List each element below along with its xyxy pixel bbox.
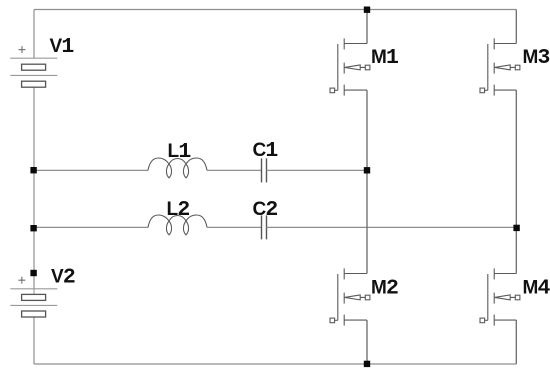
bottom rail wire	[34, 363, 516, 365]
capacitor C2	[262, 215, 267, 239]
row2 wire L2 to C2	[207, 226, 262, 228]
transistor M4	[480, 268, 520, 325]
row1 wire L1 to C1	[207, 169, 262, 171]
transistor M3	[480, 38, 520, 95]
svg-text:L2: L2	[167, 198, 190, 222]
svg-text:M3: M3	[523, 46, 550, 70]
svg-text:C1: C1	[253, 139, 278, 163]
junction node row2 left	[30, 225, 36, 231]
junction node V2 top	[30, 270, 36, 276]
junction node row1 left	[30, 167, 36, 173]
svg-text:M1: M1	[371, 46, 398, 70]
vertical branch M1-M2 lower	[366, 320, 368, 364]
svg-text:M2: M2	[371, 276, 398, 300]
inductor L1	[148, 158, 207, 178]
vertical branch M3-M4 upper	[515, 10, 517, 44]
transistor M1	[330, 38, 370, 95]
junction node top rail	[364, 7, 370, 13]
svg-text:V2: V2	[51, 266, 75, 290]
row2 wire C2 to node	[267, 226, 517, 228]
junction node bottom rail	[364, 361, 370, 367]
junction node row2 right	[513, 225, 519, 231]
svg-text:L1: L1	[168, 140, 191, 164]
left rail wire upper	[33, 10, 35, 59]
inductor L2	[148, 215, 207, 235]
junction node row1 right	[364, 167, 370, 173]
capacitor C1	[262, 158, 267, 182]
transistor M2	[330, 268, 370, 325]
svg-text:M4: M4	[523, 276, 550, 300]
svg-text:C2: C2	[253, 198, 278, 222]
left rail wire middle	[33, 87, 35, 289]
svg-text:V1: V1	[50, 35, 74, 59]
vertical branch M3-M4 middle	[515, 90, 517, 273]
vertical branch M1-M2 middle	[366, 90, 368, 273]
battery V2	[10, 289, 57, 306]
plus sign V2	[18, 277, 25, 284]
vertical branch M3-M4 lower	[515, 320, 517, 364]
row2 wire left of L2	[34, 226, 148, 228]
row1 wire left of L1	[34, 169, 148, 171]
battery V1	[10, 58, 57, 75]
top rail wire	[34, 9, 516, 11]
row1 wire C1 to node	[267, 169, 368, 171]
left rail wire lower	[33, 317, 35, 364]
plus sign V1	[19, 46, 26, 53]
vertical branch M1-M2 upper	[366, 10, 368, 44]
